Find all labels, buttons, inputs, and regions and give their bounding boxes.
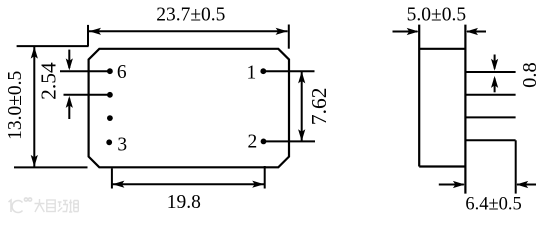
svg-text:7.62: 7.62: [307, 87, 331, 125]
body outline right view left edge with extension: [418, 25, 420, 167]
dimension 13.0 line: [33, 47, 35, 167]
svg-text:19.8: 19.8: [167, 192, 201, 213]
wire side pin 4: [465, 139, 515, 141]
arrowhead 23.7 right: [276, 28, 288, 35]
pin 4 dot: [107, 115, 113, 121]
body outline right view right edge with extension: [464, 25, 466, 194]
dimension 23.7 extension line left: [87, 25, 89, 46]
pin 6 dot: [107, 68, 113, 74]
dimension 5.0 right arrow: [467, 31, 486, 33]
pin 3 dot: [106, 139, 112, 145]
svg-text:1: 1: [247, 62, 257, 83]
body outline right view bottom edge: [419, 165, 465, 167]
body outline right view top edge: [419, 48, 465, 50]
wire side pin 1: [465, 71, 515, 73]
arrowhead 7.62 down: [298, 129, 305, 141]
pin 2 dot: [261, 139, 267, 145]
watermark glyph block 2: [47, 200, 55, 212]
svg-text:2.54: 2.54: [37, 62, 61, 100]
dimension 0.8 lower arrow: [494, 79, 496, 93]
pin 5 dot: [107, 92, 113, 98]
dimension 13.0 extension line top: [17, 45, 89, 47]
dimension 13.0 extension line bottom: [14, 166, 88, 168]
wire pin6 leader: [60, 70, 110, 72]
svg-text:3: 3: [117, 135, 127, 156]
dimension 6.4 right arrow: [517, 184, 536, 186]
body outline left view (chamfered package): [89, 49, 289, 168]
arrowhead 19.8 left: [112, 181, 124, 188]
svg-text:5.0±0.5: 5.0±0.5: [407, 5, 466, 26]
dimension 19.8 line: [112, 183, 264, 185]
wire side pin 3: [465, 116, 515, 118]
arrowhead 13.0 up: [31, 47, 38, 59]
dimension 7.62 line: [301, 71, 303, 141]
dimension 5.0 left arrow: [393, 31, 418, 33]
pin 1 dot: [260, 68, 266, 74]
arrowhead 7.62 up: [298, 71, 305, 83]
watermark glyph block 1: [35, 199, 45, 212]
dimension 0.8 upper arrow: [494, 55, 496, 69]
svg-text:0.8: 0.8: [519, 62, 541, 88]
svg-text:13.0±0.5: 13.0±0.5: [5, 71, 26, 140]
arrowhead 23.7 left: [89, 28, 101, 35]
wire side pin 2: [465, 94, 515, 96]
svg-text:6.4±0.5: 6.4±0.5: [465, 195, 521, 215]
dimension 23.7 extension line right: [288, 25, 290, 49]
dimension 6.4 left arrow: [439, 184, 464, 186]
dimension 19.8 extension line right: [264, 166, 266, 189]
arrowhead 13.0 down: [31, 155, 38, 167]
wire pin tip extension vertical: [515, 140, 517, 193]
wire pin5 leader: [64, 94, 111, 96]
watermark glyph block 3: [58, 201, 68, 212]
watermark glyph block 4: [69, 200, 78, 213]
dimension 2.54 upper arrow: [68, 50, 70, 68]
dimension 2.54 lower arrow: [68, 99, 70, 120]
wire pin2 leader: [263, 140, 315, 142]
dimension 19.8 extension line left: [111, 168, 113, 188]
svg-text:2: 2: [248, 131, 258, 152]
svg-text:23.7±0.5: 23.7±0.5: [156, 5, 225, 26]
watermark logo mark: [9, 198, 32, 213]
dimension 23.7 line: [89, 30, 288, 32]
svg-text:6: 6: [117, 62, 127, 83]
wire pin1 leader: [263, 70, 314, 72]
arrowhead 19.8 right: [252, 181, 264, 188]
